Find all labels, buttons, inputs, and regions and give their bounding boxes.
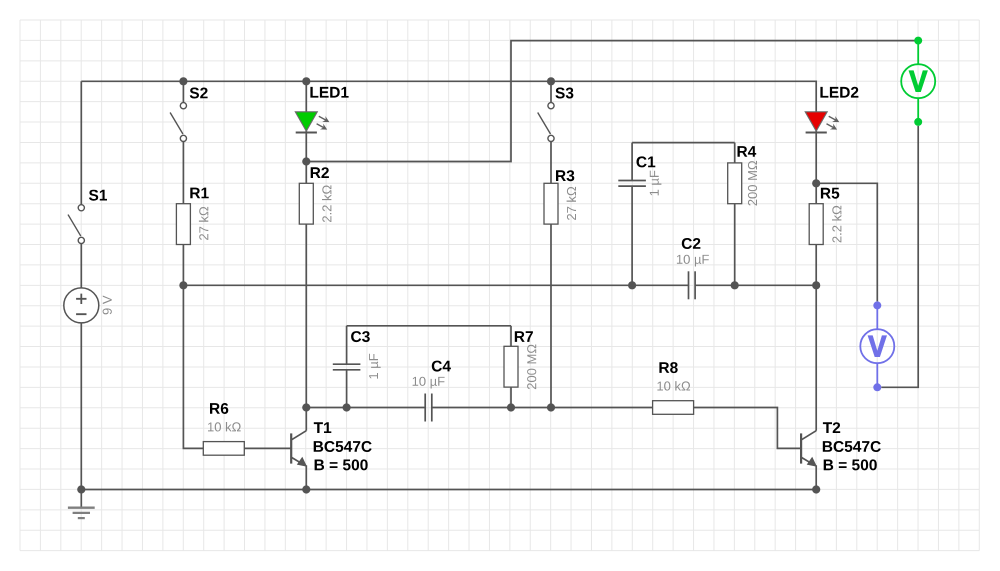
wire bbox=[346, 326, 348, 364]
value 27 kOhm bbox=[567, 187, 576, 220]
switch S3 bbox=[548, 103, 554, 109]
wire bbox=[244, 447, 291, 449]
switch S2 bbox=[180, 103, 186, 109]
resistor R7 200M bbox=[504, 346, 518, 387]
wire bbox=[815, 245, 817, 286]
capacitor C1 1uF bbox=[618, 180, 646, 182]
label T1 bbox=[314, 422, 332, 433]
switch S1 bbox=[78, 205, 84, 211]
wire bbox=[80, 323, 82, 490]
node LED1 bottom bbox=[302, 157, 310, 165]
wire bbox=[80, 81, 82, 204]
wire bbox=[815, 285, 817, 430]
node R7 bottom bbox=[507, 403, 515, 411]
label R1 bbox=[190, 188, 208, 199]
resistor R6 10k bbox=[203, 442, 244, 456]
node S3 top bbox=[547, 77, 555, 85]
resistor R3 27k bbox=[544, 183, 558, 224]
wire bbox=[510, 326, 512, 347]
wire bbox=[346, 370, 348, 408]
node R4 bottom bbox=[731, 281, 739, 289]
transistor T1 BC547C bbox=[290, 433, 292, 463]
node S2 top bbox=[179, 77, 187, 85]
LED2 red bbox=[805, 112, 827, 131]
node R5 top bbox=[812, 179, 820, 187]
label R8 bbox=[659, 362, 677, 373]
wire bbox=[81, 81, 816, 112]
label S3 bbox=[555, 88, 573, 99]
wire bbox=[306, 41, 918, 162]
wire bbox=[80, 244, 82, 288]
label R5 bbox=[821, 188, 839, 199]
value 9 V bbox=[103, 296, 112, 315]
value 10 uF bbox=[677, 255, 709, 267]
terminal dot blue top bbox=[873, 301, 881, 309]
wire bbox=[550, 142, 552, 184]
value 2.2 kOhm bbox=[832, 206, 841, 243]
wire bbox=[734, 204, 736, 286]
node ground bbox=[77, 485, 85, 493]
value 10 kOhm bbox=[657, 381, 690, 391]
wire bbox=[182, 81, 184, 102]
node T2 emitter bbox=[812, 485, 820, 493]
node T1 emitter bbox=[302, 485, 310, 493]
wire bbox=[305, 408, 307, 431]
capacitor C2 10uF bbox=[688, 271, 690, 299]
terminal dot green bottom bbox=[914, 118, 922, 126]
wire bbox=[695, 284, 816, 286]
resistor R5 2.2k bbox=[809, 204, 823, 245]
voltmeter blue bbox=[876, 305, 878, 329]
wire bbox=[510, 387, 512, 407]
resistor R8 10k bbox=[653, 401, 694, 415]
label LED1 bbox=[310, 87, 348, 98]
label LED2 bbox=[820, 87, 858, 98]
node R3 bottom bbox=[547, 403, 555, 411]
wire bbox=[816, 183, 877, 301]
wire bbox=[81, 489, 816, 491]
resistor R4 200M bbox=[728, 163, 742, 204]
label R7 bbox=[515, 331, 533, 342]
node C1 bottom bbox=[628, 281, 636, 289]
value 1 uF bbox=[369, 354, 381, 379]
node LED1 top bbox=[302, 77, 310, 85]
wire bbox=[182, 142, 184, 204]
label C3 bbox=[351, 331, 370, 342]
wire bbox=[305, 224, 307, 407]
wire bbox=[305, 81, 307, 112]
label T2 bbox=[823, 422, 840, 433]
resistor R1 27k bbox=[176, 204, 190, 245]
capacitor C3 1uF bbox=[333, 363, 361, 365]
wire bbox=[815, 183, 817, 203]
transistor T2 BC547C bbox=[800, 433, 802, 463]
wire bbox=[881, 126, 918, 387]
resistor R2 2.2k bbox=[299, 183, 313, 224]
capacitor C4 10uF bbox=[424, 394, 426, 422]
label R3 bbox=[556, 170, 574, 181]
LED1 green bbox=[295, 112, 317, 131]
wire bbox=[183, 284, 688, 286]
wire bbox=[550, 224, 552, 407]
label C4 bbox=[432, 361, 451, 372]
battery V1 9V bbox=[64, 288, 99, 323]
ground bbox=[80, 490, 82, 508]
node R1-R6 bbox=[179, 281, 187, 289]
wire bbox=[632, 142, 735, 144]
wire bbox=[815, 465, 817, 489]
wire bbox=[631, 143, 633, 181]
value 10 uF bbox=[413, 377, 445, 389]
terminal dot blue bottom bbox=[873, 383, 881, 391]
value 10 kOhm bbox=[208, 422, 241, 432]
wire bbox=[734, 143, 736, 163]
voltmeter green bbox=[917, 41, 919, 65]
node T1 collector bbox=[302, 403, 310, 411]
value 1 uF bbox=[650, 171, 662, 196]
wire bbox=[347, 325, 511, 327]
value 200 MOhm bbox=[748, 161, 757, 206]
label C2 bbox=[682, 238, 701, 249]
value 2.2 kOhm bbox=[322, 185, 331, 222]
wire bbox=[550, 81, 552, 102]
wire bbox=[305, 465, 307, 489]
node C3 bottom bbox=[343, 403, 351, 411]
wire bbox=[306, 407, 425, 409]
wire bbox=[631, 186, 633, 285]
label R2 bbox=[311, 167, 329, 178]
label R4 bbox=[738, 146, 757, 157]
label S2 bbox=[190, 88, 208, 99]
terminal dot green top bbox=[914, 37, 922, 45]
wire bbox=[305, 130, 307, 161]
value 200 MOhm bbox=[527, 345, 536, 390]
node T2 collector bbox=[812, 281, 820, 289]
label R6 bbox=[210, 403, 228, 414]
wire bbox=[183, 245, 203, 449]
label C1 bbox=[637, 156, 656, 167]
wire bbox=[305, 162, 307, 184]
wire bbox=[815, 130, 817, 183]
label S1 bbox=[89, 190, 107, 201]
wire bbox=[432, 408, 801, 449]
value 27 kOhm bbox=[199, 207, 208, 240]
